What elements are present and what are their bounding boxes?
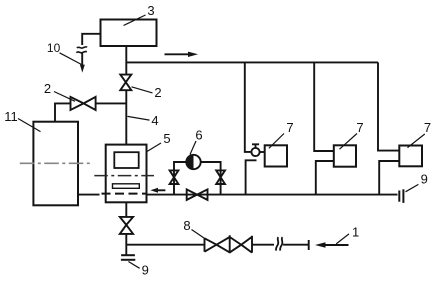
wire: appliance 3 return drop xyxy=(379,161,399,195)
label 5 xyxy=(163,131,170,146)
leader line to left 2 xyxy=(54,92,75,102)
wire: hidden pipe behind meter (dashed) xyxy=(102,193,147,195)
svg-text:11: 11 xyxy=(4,109,18,124)
wire: stem to insulating joint xyxy=(125,234,127,255)
svg-text:9: 9 xyxy=(421,172,428,187)
valve 2 (horizontal, at tank 11) xyxy=(71,97,96,110)
valve 8a (inlet double valve, left) xyxy=(205,235,230,253)
label 10 xyxy=(47,41,61,55)
svg-text:8: 8 xyxy=(183,218,190,233)
wire: cock to appliance 1 xyxy=(260,151,265,153)
meter display window xyxy=(114,152,138,168)
centerline of tank 11 xyxy=(20,162,92,164)
insulating joint bar lower xyxy=(121,259,135,261)
leader line to 1 xyxy=(336,234,349,244)
leader line to 11 xyxy=(18,119,41,132)
wire: appliance 1 return drop xyxy=(246,160,257,194)
meter centerline xyxy=(94,175,154,177)
label 7 (second) xyxy=(356,120,363,135)
label 8 xyxy=(183,218,190,233)
break bar upper (vent joint) xyxy=(77,47,87,48)
leader line to 3 xyxy=(124,15,146,26)
pipe end bar xyxy=(308,240,310,250)
svg-text:7: 7 xyxy=(286,120,293,135)
leader line to bottom 9 xyxy=(128,262,139,269)
leader line to 5 xyxy=(147,143,161,152)
wire: inlet line segment xyxy=(283,244,309,246)
label 1 xyxy=(352,225,359,240)
insulating joint bar 2 (right end) xyxy=(402,189,404,203)
main line valve (under pump) xyxy=(187,189,208,200)
wire: main riser valve to meter xyxy=(125,90,127,144)
svg-text:1: 1 xyxy=(352,225,359,240)
appliance 7 (third) xyxy=(399,146,422,167)
wire: tank 11 to valve xyxy=(55,103,71,121)
svg-text:2: 2 xyxy=(44,81,51,96)
svg-text:10: 10 xyxy=(47,41,61,55)
svg-text:5: 5 xyxy=(163,131,170,146)
label 7 (first) xyxy=(286,120,293,135)
label 3 xyxy=(147,3,154,18)
label 4 xyxy=(151,113,158,128)
appliance 7 (first) xyxy=(265,145,287,166)
wire: riser drop 2 xyxy=(314,62,334,151)
bypass valve right xyxy=(216,170,225,184)
leader line to 8 xyxy=(192,230,205,239)
svg-text:3: 3 xyxy=(147,3,154,18)
break bar lower (vent joint) xyxy=(76,52,87,53)
wire: inlet line segment xyxy=(252,244,274,246)
label 2 (right) xyxy=(154,85,161,100)
gas cock (appliance 1) xyxy=(251,148,259,156)
wire: meter bottom stem xyxy=(125,202,127,217)
pump/blower 6 xyxy=(186,155,200,169)
svg-text:9: 9 xyxy=(142,263,149,278)
wire: tank 11 outlet (solid) xyxy=(78,194,100,196)
wire: service inlet line xyxy=(126,244,204,246)
label 7 (third) xyxy=(424,120,431,135)
meter slot xyxy=(113,184,140,189)
insulating joint bar 1 (right end) xyxy=(398,191,400,202)
inlet flow arrow 1 xyxy=(315,242,326,248)
pipe break symbol xyxy=(276,237,283,250)
flow arrow into meter xyxy=(150,188,158,193)
valve 2 (vertical, under box 3) xyxy=(120,75,131,91)
tank 11 xyxy=(33,122,78,206)
appliance 7 (second) xyxy=(334,145,356,166)
leader line to 10 xyxy=(60,53,82,65)
svg-text:7: 7 xyxy=(424,120,431,135)
label 9 (right) xyxy=(421,172,428,187)
label 11 xyxy=(4,109,18,124)
gas meter 5 xyxy=(106,145,147,203)
wire: stem from box 3 down xyxy=(125,46,127,75)
tank/box 3 (top apparatus) xyxy=(101,20,157,47)
flow arrow (top, right) xyxy=(165,53,190,55)
wire: bottom distribution main xyxy=(147,194,398,196)
wire: appliance 2 return drop xyxy=(316,161,334,195)
label 6 xyxy=(195,128,202,143)
label 9 (bottom) xyxy=(142,263,149,278)
valve (below meter) xyxy=(120,217,133,234)
leader line to 6 xyxy=(190,141,196,155)
valve 8b (inlet double valve, right) xyxy=(230,236,252,253)
bypass valve left xyxy=(170,170,179,184)
wire: riser drop 3 (end of main) xyxy=(378,62,399,150)
leader line to first 7 xyxy=(269,134,284,149)
svg-text:2: 2 xyxy=(154,85,161,100)
wire: vent stem xyxy=(81,53,83,65)
leader line to second 7 xyxy=(340,134,358,150)
leader line to right 9 xyxy=(406,184,419,191)
label 2 (left) xyxy=(44,81,51,96)
vent arrow (down) xyxy=(80,65,85,73)
wire: vent pipe from box 3 left xyxy=(82,34,100,45)
wire: riser drop 1 xyxy=(245,62,252,151)
leader line to 4 xyxy=(128,116,150,120)
svg-text:6: 6 xyxy=(195,128,202,143)
leader line to third 7 xyxy=(408,134,425,148)
leader line to right 2 xyxy=(132,87,153,93)
svg-text:4: 4 xyxy=(151,113,158,128)
wire: valve to main riser xyxy=(96,102,127,104)
insulating joint bar upper xyxy=(121,254,135,256)
wire: bypass loop right riser xyxy=(201,162,221,195)
wire: top distribution main xyxy=(126,61,378,63)
svg-text:7: 7 xyxy=(356,120,363,135)
wire: bypass loop left riser xyxy=(174,162,186,195)
